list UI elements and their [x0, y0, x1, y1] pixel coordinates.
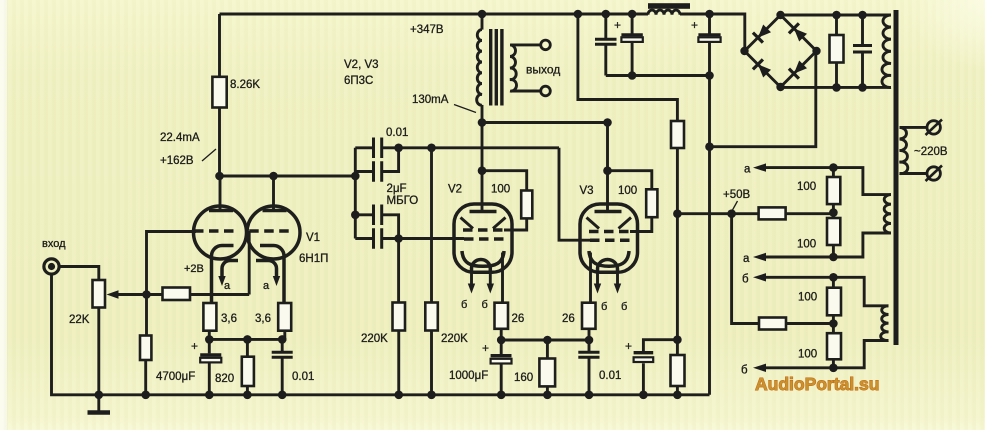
node: ground junction — [95, 391, 104, 400]
power transformer primary winding ~220V — [900, 127, 908, 173]
labels b b — [601, 301, 627, 313]
diode D4 (bottom-right edge) — [789, 61, 807, 79]
V2 heater (inverted-U with arrow legs) — [468, 260, 494, 294]
svg-text:220K: 220K — [361, 333, 388, 345]
wire: V3 screen to 100 ohm — [630, 217, 652, 231]
node: divider tap on +347 rail — [574, 10, 583, 19]
wire+arrow: wiper arrow into 22K pot — [107, 290, 147, 298]
capacitor filter C (plain) — [595, 14, 617, 76]
svg-text:+: + — [191, 339, 198, 353]
wire: cathode bus y339.4 — [209, 331, 284, 340]
svg-text:а: а — [263, 280, 270, 292]
svg-text:вход: вход — [42, 238, 66, 250]
svg-text:130mA: 130mA — [412, 94, 449, 106]
svg-text:б: б — [482, 299, 488, 311]
svg-text:22.4mA: 22.4mA — [160, 132, 200, 144]
svg-text:100: 100 — [618, 185, 637, 197]
node dots bottom rail right — [639, 391, 682, 400]
node: ground to rectifier minus — [705, 142, 714, 151]
arrow a (lower) — [753, 253, 766, 261]
wire: AC top rail to HV winding — [781, 14, 892, 17]
wire: top +347V rail from 8.26K to rectifier + corner — [220, 14, 745, 52]
resistor 100 (V2 screen) — [482, 171, 532, 219]
svg-text:100: 100 — [798, 349, 817, 361]
svg-text:100: 100 — [797, 239, 816, 251]
svg-text:б: б — [742, 274, 749, 286]
resistor feed upper (+50V to a humdinger) — [759, 207, 834, 219]
filter choke (core bar + loops) — [648, 3, 690, 15]
wire: V1 anode rail y176 — [220, 175, 356, 178]
wire: rectifier minus to ground — [710, 53, 816, 147]
V1 triode2 grid (dashed) — [249, 229, 291, 233]
label 2uF MBGO — [387, 183, 419, 207]
svg-text:б: б — [621, 301, 627, 313]
resistor 220K grid leak V2 — [393, 239, 406, 395]
wire: filter caps ground bus — [606, 74, 710, 77]
svg-text:V3: V3 — [580, 185, 594, 197]
V1 triode2 anode plate and lead — [263, 176, 287, 211]
label +50V with pointer — [723, 189, 751, 210]
svg-text:2μF: 2μF — [387, 183, 407, 195]
capacitor filter electrolytic 2 — [691, 14, 721, 76]
V1 heater arrow a (right) — [256, 261, 280, 287]
node: filter cap on +347 rail — [602, 10, 611, 19]
svg-text:4700μF: 4700μF — [156, 371, 195, 383]
capacitor 0.01 coupling (top, to V3 grid) — [355, 138, 559, 159]
wire: heater b bottom stem to arrow — [760, 341, 889, 368]
node dots humdinger a — [829, 163, 838, 261]
svg-text:0.01: 0.01 — [386, 127, 408, 139]
tube V2 envelope — [454, 204, 512, 272]
node dots V2 anode junctions — [478, 118, 487, 175]
wire: heater a bottom stem to arrow — [760, 233, 891, 257]
svg-text:220K: 220K — [441, 333, 468, 345]
capacitor 4700uF electrolytic — [191, 339, 221, 395]
svg-text:+2В: +2В — [184, 263, 204, 275]
power transformer core — [894, 10, 899, 345]
svg-text:а: а — [224, 280, 231, 292]
arrow b (to V2 V3 heaters) — [753, 273, 766, 281]
svg-text:26: 26 — [562, 313, 575, 325]
node: OT top on +347 rail — [478, 10, 487, 19]
node dots bottom rail center — [497, 391, 593, 400]
V3 anode plate and lead — [595, 123, 622, 212]
resistor 3.6 (triode1 cathode) — [203, 303, 216, 331]
resistor: feedback divider lower (unlabeled) — [140, 295, 151, 395]
V3 heater (inverted-U with arrow legs) — [594, 260, 621, 294]
wire: coupling left rail from anode rail — [354, 148, 357, 239]
arrow b (lower) — [753, 364, 766, 372]
V3 screen grid (dashed) — [589, 230, 630, 234]
V3 beam plates — [587, 218, 632, 229]
svg-text:+162В: +162В — [160, 155, 194, 167]
node dots bridge corners — [740, 11, 820, 91]
svg-text:V1: V1 — [306, 232, 320, 244]
node dots coupling top — [394, 144, 436, 153]
node dots bottom rail V1 area — [205, 391, 287, 400]
svg-text:3,6: 3,6 — [221, 313, 237, 325]
V1 triode2 cathode arc and lead — [260, 246, 284, 304]
resistor 3.6 (triode2 cathode) — [278, 303, 291, 331]
input jack connector — [44, 259, 59, 274]
svg-text:+50В: +50В — [723, 189, 751, 201]
resistor 100 humdinger b1 — [827, 277, 841, 315]
OT core (3 bars) — [491, 29, 502, 106]
wire: secondary to output terminals — [511, 45, 541, 91]
svg-text:V2: V2 — [448, 184, 462, 196]
V1 heater arrow a (left) — [218, 261, 238, 287]
wire: jack shield down and bottom ground rail — [52, 274, 710, 395]
svg-text:820: 820 — [215, 373, 234, 385]
node: feedback junction — [142, 290, 151, 299]
svg-text:выход: выход — [526, 63, 560, 77]
wire: +50V drop to lower feed — [732, 214, 759, 324]
node: electrolytic 2 on +347 rail — [705, 10, 714, 19]
node dots on cap ground bus — [628, 71, 714, 80]
wire: V3 grid drop at x559 — [559, 148, 590, 240]
svg-text:100: 100 — [798, 292, 817, 304]
resistor snubber across HV winding — [830, 15, 844, 87]
svg-text:AudioPortal.su: AudioPortal.su — [755, 374, 879, 394]
wire: divider to +50V node and down — [676, 148, 679, 340]
wire: +50V divider feed — [578, 14, 678, 121]
svg-text:+: + — [625, 339, 632, 353]
node: bypass cap junction — [673, 335, 682, 344]
bridge rectifier diamond — [745, 15, 817, 87]
power transformer HV secondary winding — [882, 15, 891, 87]
resistor (grid stopper) horizontal in feedback line — [147, 288, 250, 301]
node dots V3 anode junctions — [603, 118, 612, 175]
resistor feed lower (+50V to b humdinger) — [759, 318, 833, 330]
svg-text:3,6: 3,6 — [255, 313, 271, 325]
V2 anode plate and lead — [470, 123, 497, 212]
svg-text:1000μF: 1000μF — [449, 370, 488, 382]
capacitor 50V bypass electrolytic — [625, 339, 677, 395]
wire: main ground drop x709.5 — [708, 76, 711, 395]
resistor divider upper (347V to 50V) — [671, 121, 684, 148]
heater winding b (lower) — [881, 306, 889, 341]
V1 triode1 cathode arc and lead to 3.6 resistor — [212, 246, 234, 304]
resistor 100 humdinger b2 — [827, 315, 841, 368]
wire: V2 grid wire — [399, 237, 464, 240]
node dots snubber rails — [832, 11, 867, 92]
tube V1 envelope (double triode, two circles) — [194, 206, 301, 259]
wire: grid1 to feedback node — [147, 232, 197, 295]
resistor 26 (V3 cathode) — [582, 303, 596, 340]
capacitor 0.01 coupling (lower pair, to V2 grid) — [355, 205, 398, 239]
wire: pot bottom to ground rail — [97, 308, 100, 395]
svg-text:а: а — [743, 253, 750, 265]
V2 beam plates — [461, 218, 506, 229]
svg-text:22K: 22K — [69, 314, 90, 326]
V3 control grid (dashed) — [590, 238, 630, 242]
node dots on cathode bus — [205, 335, 287, 344]
wire: jack to pot top — [59, 267, 99, 281]
node: junction dots on anode rail — [215, 172, 224, 181]
wire: heater b top stem to arrow — [760, 277, 889, 306]
svg-text:+: + — [482, 341, 489, 355]
label V1 6N1P — [299, 232, 328, 265]
output terminal (top) — [541, 40, 551, 50]
diode D3 (bottom-left edge) — [753, 59, 771, 77]
resistor 100 humdinger a1 — [827, 168, 840, 205]
node dots humdinger b — [829, 273, 838, 372]
heater winding a (upper) — [884, 195, 891, 233]
V2 control grid (dashed) — [464, 237, 504, 241]
svg-text:0.01: 0.01 — [599, 370, 621, 382]
svg-text:100: 100 — [491, 184, 510, 196]
node: +50V at x731.6 — [727, 209, 736, 218]
V2 cathode arc and lead — [462, 251, 504, 303]
potentiometer 22K — [93, 280, 106, 308]
resistor 100 (V3 screen) — [608, 171, 658, 218]
output terminal (bottom) — [541, 86, 551, 96]
resistor 820 — [242, 339, 254, 394]
capacitor 2uF (lower pair) — [355, 228, 398, 249]
diode D2 (top-right edge) — [789, 23, 807, 41]
svg-text:160: 160 — [514, 372, 533, 384]
label 130mA with pointer — [412, 94, 476, 113]
node dots cathode bus — [497, 336, 593, 345]
svg-text:6Н1П: 6Н1П — [299, 253, 328, 265]
capacitor filter electrolytic 1 — [614, 14, 643, 76]
wire: cathode bus V2-V3 — [501, 339, 589, 342]
output transformer OT primary winding — [477, 14, 482, 123]
arrow a (to V1 heaters) — [753, 163, 766, 171]
resistor divider lower — [671, 340, 685, 395]
svg-text:26: 26 — [512, 313, 525, 325]
wire: V2 screen to 100 ohm — [504, 218, 527, 230]
capacitor snubber — [853, 15, 872, 87]
node: +50V junction — [673, 209, 682, 218]
wire: anode feed from OT to V3 — [482, 121, 608, 124]
resistor 220K grid leak V3 — [425, 148, 438, 395]
svg-text:~220В: ~220В — [914, 146, 948, 158]
capacitor 1000uF electrolytic — [482, 340, 512, 395]
terminal ~220V top (circle with slash) — [926, 120, 943, 136]
capacitor 2uF MBGO (top pair) — [355, 148, 398, 182]
V3 cathode arc and lead — [589, 251, 629, 303]
svg-text:МБГО: МБГО — [387, 195, 419, 207]
svg-text:б: б — [601, 301, 607, 313]
tube V3 envelope — [580, 204, 638, 272]
svg-text:0.01: 0.01 — [292, 371, 314, 383]
wire: +50V bus — [677, 212, 758, 215]
svg-text:б: б — [461, 299, 467, 311]
svg-text:+347В: +347В — [410, 24, 444, 36]
resistor 100 humdinger a2 — [827, 204, 840, 257]
resistor 26 (V2 cathode) — [495, 303, 509, 340]
diode D1 (top-left edge) — [753, 25, 771, 43]
V1 triode1 anode plate and lead — [209, 176, 233, 211]
svg-text:6П3С: 6П3С — [344, 75, 373, 87]
resistor 160 — [539, 340, 555, 395]
V2 screen grid (dashed) — [463, 228, 504, 232]
svg-text:+: + — [614, 18, 621, 32]
svg-text:б: б — [741, 365, 748, 377]
wire: primary to terminals — [900, 127, 928, 173]
svg-text:V2, V3: V2, V3 — [344, 59, 379, 71]
node: electrolytic on +347 rail — [628, 10, 637, 19]
OT secondary winding — [510, 45, 517, 91]
resistor 8.26K R1 vertical with leads — [212, 14, 226, 176]
node dots coupling lower — [351, 211, 403, 243]
wire: up to grid2 — [248, 231, 251, 295]
label 22.4mA +162V with pointer — [160, 132, 216, 167]
labels b b — [461, 299, 488, 311]
capacitor 0.01 (V3 cathode) — [578, 340, 599, 395]
node dots 220K at ground — [394, 391, 435, 400]
svg-text:100: 100 — [797, 181, 816, 193]
svg-text:а: а — [744, 164, 751, 176]
ground symbol — [88, 395, 111, 413]
wire: AC bottom rail to HV winding — [781, 86, 892, 89]
svg-text:8.26K: 8.26K — [230, 79, 260, 91]
wire: heater a top stem to arrow — [760, 168, 891, 195]
svg-text:+: + — [691, 18, 698, 32]
node: divider resistor at ground — [141, 391, 150, 400]
terminal ~220V bottom (circle with slash) — [926, 166, 943, 182]
V1 triode1 grid (dashed) — [194, 229, 236, 233]
label V2,V3 6P3S — [344, 59, 379, 87]
capacitor 0.01 (V1 cathode) — [272, 339, 293, 394]
